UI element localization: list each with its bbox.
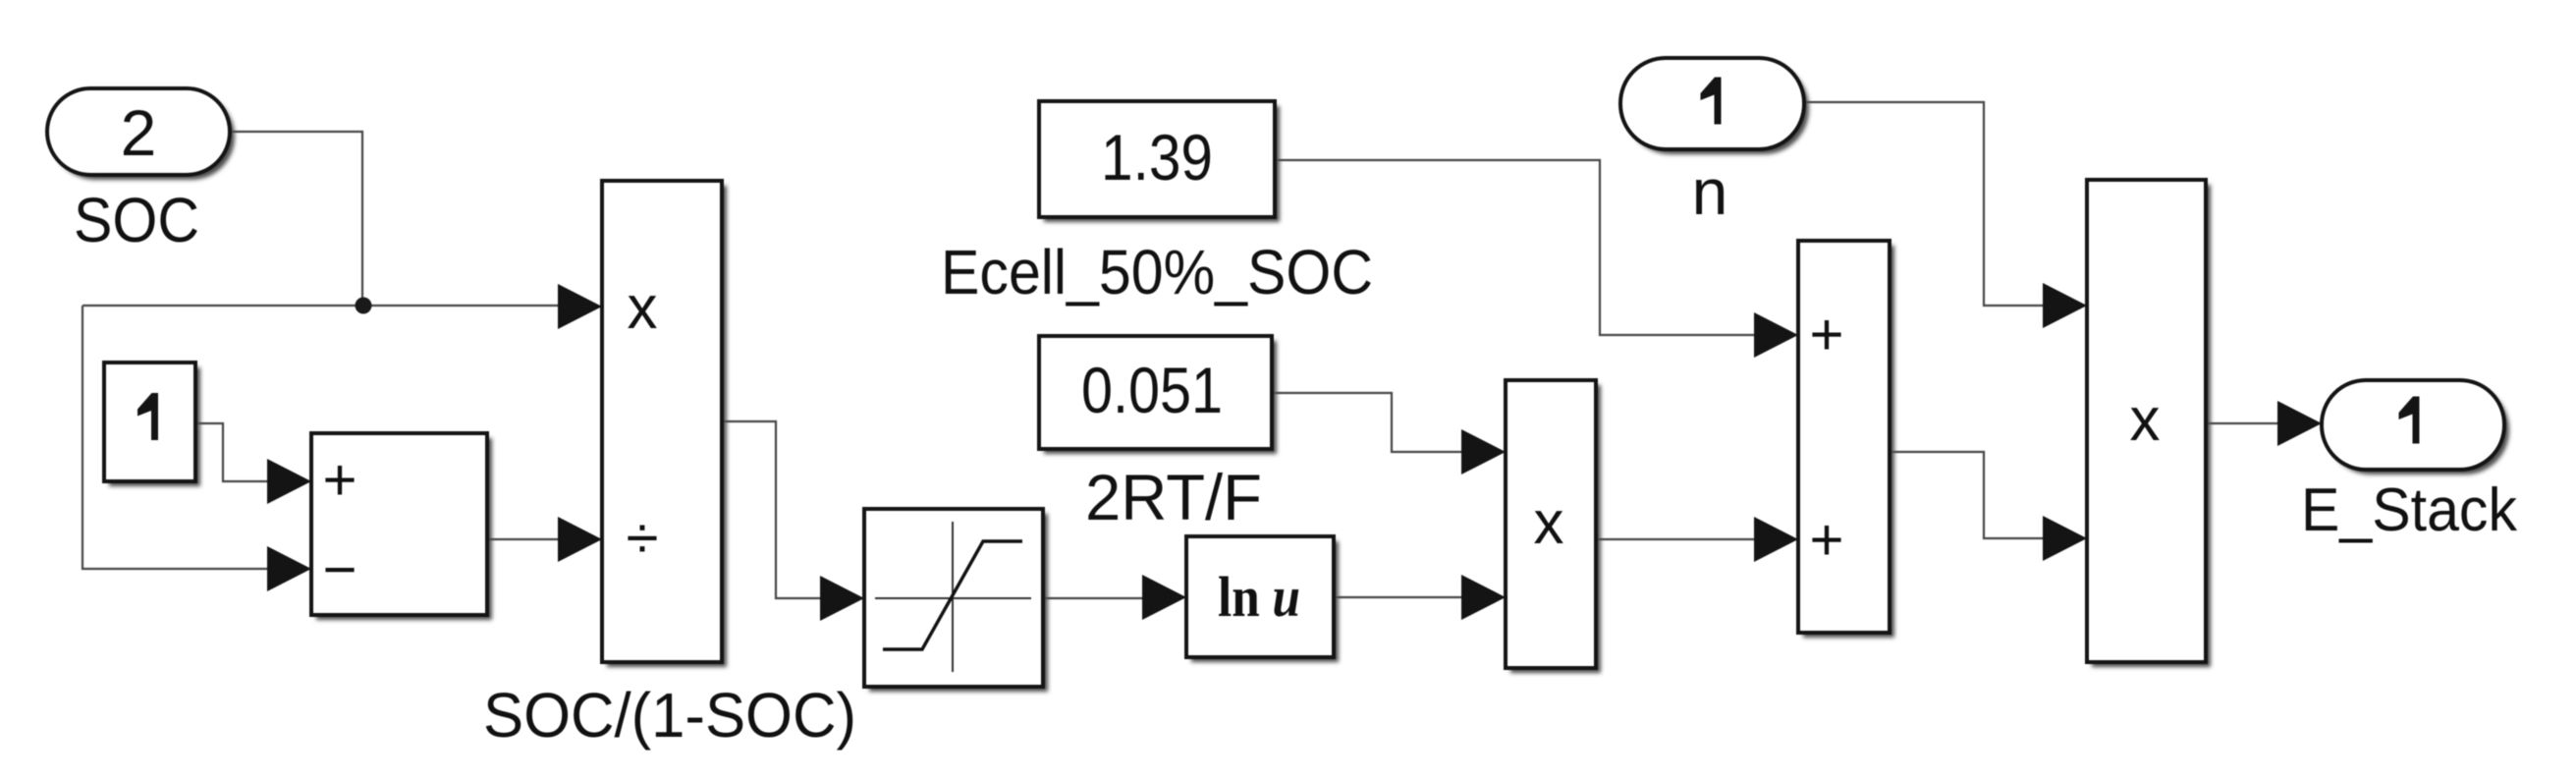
svg-text:n: n	[1692, 155, 1728, 228]
wire product1 to saturation	[722, 421, 822, 598]
svg-text:x: x	[2130, 386, 2161, 454]
product block P3 x	[2087, 180, 2211, 667]
svg-text:−: −	[322, 536, 356, 602]
constant 1.39	[1039, 101, 1280, 222]
svg-text:2: 2	[121, 96, 157, 169]
svg-text:SOC/(1-SOC): SOC/(1-SOC)	[483, 680, 856, 751]
wire product3 to outport	[2206, 422, 2279, 424]
svg-text:ln u: ln u	[1218, 565, 1300, 629]
svg-text:1.39: 1.39	[1101, 121, 1213, 194]
svg-text:+: +	[322, 447, 356, 513]
wire from port SOC to junction	[230, 132, 362, 306]
wire constant 1.39 to sum2 top input	[1275, 160, 1756, 335]
svg-text:+: +	[1809, 302, 1843, 367]
inport 1 n	[1620, 58, 1809, 154]
math function ln u	[1186, 536, 1339, 662]
svg-text:÷: ÷	[627, 505, 659, 571]
svg-text:0.051: 0.051	[1081, 354, 1223, 426]
sum block S1 plus minus	[311, 433, 492, 620]
product block P2 x	[1506, 380, 1601, 673]
inport 2 SOC	[47, 88, 235, 180]
svg-text:E_Stack: E_Stack	[2301, 476, 2518, 544]
svg-text:SOC: SOC	[74, 185, 199, 255]
constant 0.051	[1039, 336, 1277, 454]
constant C1 value 1	[104, 363, 200, 486]
wire ln to product2 lower input	[1334, 596, 1463, 598]
svg-text:+: +	[1809, 507, 1843, 573]
svg-text:x: x	[628, 274, 658, 342]
outport 1 E_Stack	[2322, 380, 2509, 474]
svg-text:Ecell_50%_SOC: Ecell_50%_SOC	[941, 237, 1373, 307]
wire SOC net down-left to minus input	[82, 306, 269, 569]
svg-text:2RT/F: 2RT/F	[1085, 461, 1262, 533]
wire horizontal SOC net to product input	[82, 305, 560, 307]
sum block S2 plus plus	[1798, 241, 1894, 638]
node junction dot	[356, 298, 372, 314]
wire product2 to sum2 bottom input	[1596, 538, 1756, 540]
wire sum2 to product3 bottom input	[1890, 452, 2045, 538]
svg-text:x: x	[1534, 489, 1564, 557]
wire port n to product3 top input	[1804, 102, 2045, 306]
product block P1 x divide	[602, 181, 727, 667]
wire sum1 to divide input	[487, 538, 560, 540]
wire constant 0.051 to product2 top input	[1272, 393, 1463, 452]
wire constant 1 to plus input	[195, 423, 269, 481]
saturation block	[864, 509, 1048, 692]
wire saturation to ln	[1043, 597, 1144, 599]
